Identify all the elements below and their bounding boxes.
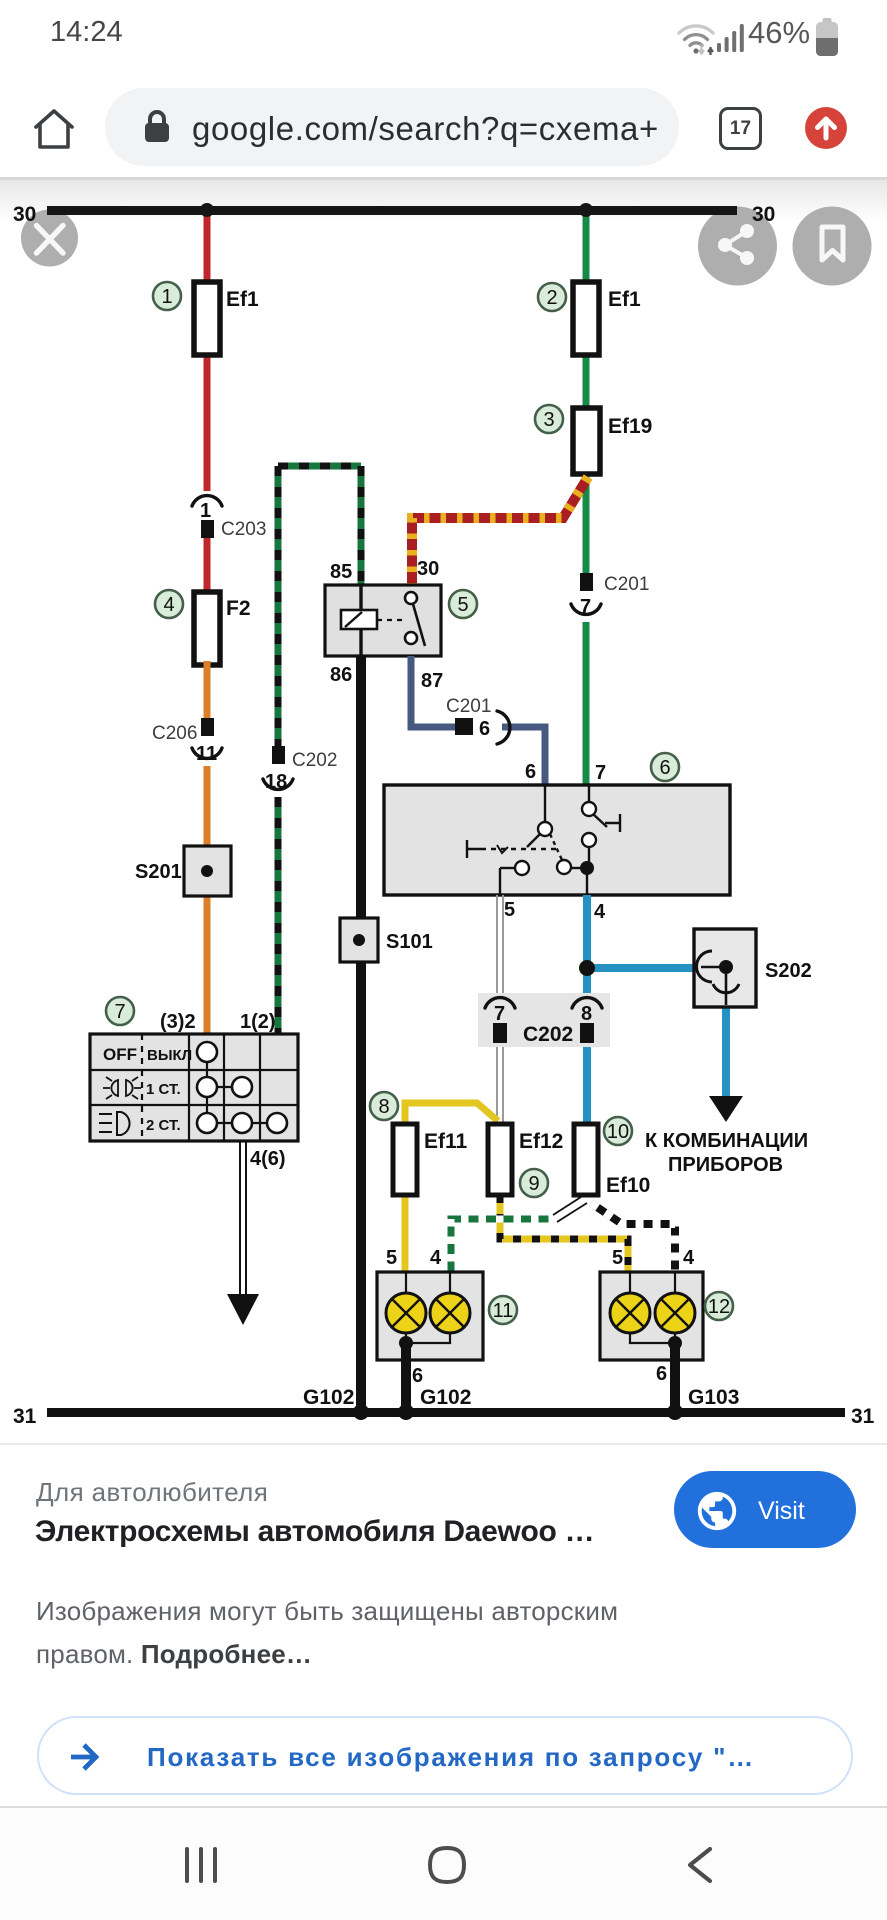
svg-text:7: 7 [595, 762, 606, 784]
svg-text:11: 11 [493, 1300, 514, 1322]
svg-text:Ef11: Ef11 [424, 1130, 468, 1153]
svg-text:6: 6 [479, 718, 490, 740]
svg-text:5: 5 [612, 1247, 623, 1269]
svg-text:Ef10: Ef10 [606, 1174, 650, 1197]
svg-text:5: 5 [386, 1247, 397, 1269]
svg-text:4: 4 [163, 594, 174, 616]
svg-text:OFF: OFF [103, 1045, 137, 1064]
svg-text:C206: C206 [152, 723, 197, 744]
svg-text:6: 6 [525, 761, 536, 783]
svg-text:85: 85 [330, 561, 352, 583]
svg-text:30: 30 [752, 203, 775, 226]
svg-text:G103: G103 [688, 1386, 739, 1409]
svg-text:4: 4 [594, 901, 606, 923]
svg-text:C202: C202 [523, 1023, 573, 1046]
svg-text:87: 87 [421, 670, 443, 692]
svg-text:1: 1 [200, 500, 211, 522]
svg-text:F2: F2 [226, 597, 251, 620]
svg-text:1(2): 1(2) [240, 1011, 276, 1033]
svg-text:4: 4 [430, 1247, 442, 1269]
svg-text:5: 5 [457, 594, 468, 616]
svg-text:6: 6 [412, 1365, 423, 1387]
svg-text:2 СТ.: 2 СТ. [146, 1117, 181, 1134]
svg-text:C201: C201 [446, 696, 491, 717]
svg-text:ПРИБОРОВ: ПРИБОРОВ [668, 1154, 783, 1176]
svg-text:S202: S202 [765, 960, 812, 982]
svg-text:Ef12: Ef12 [519, 1130, 563, 1153]
svg-text:(3)2: (3)2 [160, 1011, 196, 1033]
svg-text:1 СТ.: 1 СТ. [146, 1081, 181, 1098]
svg-text:31: 31 [851, 1405, 875, 1428]
svg-text:11: 11 [196, 743, 217, 765]
svg-text:К КОМБИНАЦИИ: К КОМБИНАЦИИ [645, 1130, 808, 1152]
svg-text:6: 6 [656, 1363, 667, 1385]
svg-text:9: 9 [528, 1173, 539, 1195]
svg-text:12: 12 [708, 1296, 730, 1318]
svg-text:G102: G102 [420, 1386, 471, 1409]
svg-text:ВЫКЛ: ВЫКЛ [147, 1047, 192, 1064]
svg-text:8: 8 [581, 1003, 592, 1025]
svg-text:30: 30 [417, 558, 439, 580]
svg-text:3: 3 [543, 409, 554, 431]
svg-text:4: 4 [683, 1247, 695, 1269]
svg-text:86: 86 [330, 664, 352, 686]
svg-text:C201: C201 [604, 574, 649, 595]
svg-text:31: 31 [13, 1405, 37, 1428]
svg-text:S201: S201 [135, 861, 182, 883]
svg-text:6: 6 [659, 757, 670, 779]
svg-text:5: 5 [504, 899, 515, 921]
svg-text:C202: C202 [292, 750, 337, 771]
svg-text:7: 7 [114, 1001, 125, 1023]
svg-text:7: 7 [494, 1003, 505, 1025]
svg-text:30: 30 [13, 203, 36, 226]
svg-text:C203: C203 [221, 519, 266, 540]
svg-text:10: 10 [607, 1121, 629, 1143]
svg-text:4(6): 4(6) [250, 1148, 286, 1170]
svg-text:Ef19: Ef19 [608, 415, 652, 438]
svg-text:8: 8 [378, 1096, 389, 1118]
svg-text:S101: S101 [386, 931, 433, 953]
svg-text:G102: G102 [303, 1386, 354, 1409]
